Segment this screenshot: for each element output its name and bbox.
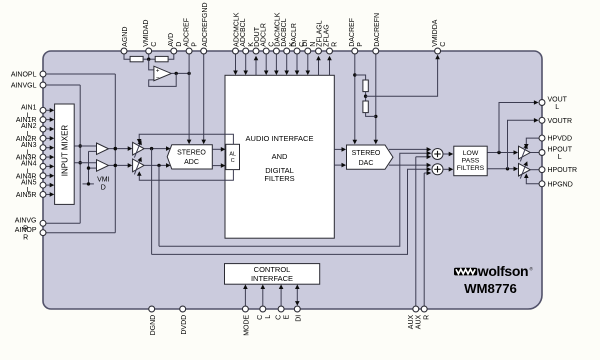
HP amp R — [519, 161, 531, 178]
pin HPVDD — [539, 135, 572, 142]
svg-text:HPGND: HPGND — [548, 181, 573, 188]
svg-text:C: C — [231, 158, 235, 164]
svg-text:E: E — [283, 314, 290, 319]
svg-text:AND: AND — [272, 152, 288, 161]
wire DI to control interface bidirectional — [295, 284, 300, 305]
pin AIN5L — [21, 179, 46, 194]
svg-text:L: L — [558, 154, 562, 161]
pin DOUT — [253, 26, 261, 54]
svg-text:DACLR: DACLR — [291, 23, 298, 47]
svg-text:AUX: AUX — [415, 314, 422, 329]
svg-text:C: C — [275, 315, 282, 320]
svg-text:VOUTR: VOUTR — [548, 118, 573, 125]
wire A2 to PGA2 — [109, 163, 133, 168]
block STEREO ADC — [167, 145, 212, 169]
svg-text:C: C — [151, 42, 158, 47]
wire CE to control interface — [279, 284, 284, 306]
svg-text:INPUT MIXER: INPUT MIXER — [61, 125, 70, 177]
pin DGND — [149, 306, 157, 335]
svg-text:ADCBCL: ADCBCL — [240, 18, 247, 47]
wire ADCREFGND to STEREO ADC — [201, 51, 206, 144]
svg-text:AIN1: AIN1 — [21, 105, 37, 112]
wire U1 output to ADCREFP node — [171, 72, 191, 75]
block AUDIO INTERFACE AND DIGITAL FILTERS — [225, 75, 334, 238]
wire AINOPL / AINOPR column — [43, 74, 117, 233]
pin AIN3L — [21, 142, 46, 157]
svg-text:AUDIO INTERFACE: AUDIO INTERFACE — [246, 134, 314, 143]
svg-text:WM8776: WM8776 — [464, 281, 517, 296]
pin AINOPL — [11, 71, 46, 78]
wire bypass L PGA1 to summer S2 — [152, 149, 432, 255]
svg-text:LOW: LOW — [463, 150, 479, 157]
pin AUXR — [415, 306, 430, 329]
wire HPVDD to HP amp L — [524, 138, 542, 149]
svg-text:C: C — [440, 42, 447, 47]
svg-text:D: D — [101, 184, 106, 191]
summer S1 — [432, 149, 443, 160]
wire ZFLAGL output — [316, 56, 321, 76]
wire HPGND to HP amp R — [524, 173, 542, 183]
svg-text:HPVDD: HPVDD — [548, 136, 573, 143]
pin AINOPR — [15, 227, 46, 242]
svg-text:STEREO: STEREO — [352, 150, 381, 157]
wire DACREFP tap to resistor R3 — [355, 75, 366, 80]
pin DI — [294, 306, 302, 322]
svg-text:VMIDDA: VMIDDA — [432, 19, 439, 47]
wire DAC R to summer S2 — [389, 163, 431, 168]
pin ADCBCLK — [240, 18, 255, 54]
pin VOUTL — [539, 97, 568, 111]
pin DACBCLK — [281, 18, 296, 54]
pin AVDD — [168, 33, 183, 54]
pin DIN — [302, 40, 317, 54]
pin CE — [275, 306, 290, 320]
op-amp U1 VMID buffer — [154, 66, 171, 81]
svg-text:DACREFN: DACREFN — [374, 13, 381, 47]
wire R4 to DACREFN — [366, 113, 376, 117]
wires clock/data input pins to audio interface — [233, 51, 310, 75]
pin VMIDDAC — [432, 19, 447, 54]
svg-text:wolfson: wolfson — [477, 263, 528, 279]
wire DACREFP down to STEREO DAC — [353, 51, 358, 144]
label VMID — [97, 176, 110, 191]
wire PGA2 to STEREO ADC — [144, 163, 171, 168]
wire PGA1 to STEREO ADC — [144, 146, 171, 151]
pin DVDD — [180, 306, 188, 335]
svg-text:AIN5R: AIN5R — [16, 192, 37, 199]
svg-text:AIN3: AIN3 — [21, 142, 37, 149]
resistor R4 — [363, 101, 368, 113]
wire LPF L to VOUTL and HP amp L — [488, 100, 539, 155]
svg-text:DACREF: DACREF — [349, 18, 356, 47]
pin CL — [257, 306, 272, 320]
amp A1 left channel — [97, 143, 109, 155]
pin ADCMCLK — [233, 12, 241, 54]
block LOW PASS FILTERS — [454, 146, 487, 176]
pin AIN2L — [21, 123, 46, 138]
pin AIN1R — [16, 117, 46, 124]
wire AUXR to summer S2 — [424, 171, 431, 306]
svg-text:P: P — [357, 42, 364, 47]
PGA2 variable gain amp R — [133, 157, 145, 175]
pin DACLRC — [291, 23, 306, 54]
wires audio interface to STEREO DAC — [334, 147, 346, 167]
svg-text:ADCREFGND: ADCREFGND — [202, 2, 209, 46]
svg-text:AVD: AVD — [168, 33, 175, 47]
svg-text:FILTERS: FILTERS — [457, 165, 485, 172]
block STEREO DAC — [347, 145, 394, 169]
pin ZFLAGR — [324, 24, 339, 54]
pin VMIDADC — [143, 20, 158, 54]
wire R2 to AVDD — [168, 51, 174, 59]
wire ADCREFP to STEREO ADC — [187, 51, 192, 144]
wire ZFLAGR output — [327, 56, 332, 76]
svg-text:ADCREF: ADCREF — [183, 18, 190, 47]
summer S2 — [432, 164, 443, 175]
svg-text:L: L — [555, 104, 559, 111]
block CONTROL INTERFACE — [225, 264, 320, 285]
svg-text:−: − — [156, 75, 160, 81]
pin ZFLAGL — [316, 20, 324, 54]
block ALC — [226, 144, 240, 169]
resistor R2 — [155, 56, 168, 61]
svg-text:FILTERS: FILTERS — [264, 174, 294, 183]
wire mixer R output to amp A2 — [74, 162, 96, 164]
svg-text:HPOUTR: HPOUTR — [548, 167, 578, 174]
pin AIN4R — [16, 173, 46, 180]
svg-text:R: R — [332, 42, 339, 47]
pin DACREFN — [373, 13, 381, 54]
wire ALC gain control to PGA1 — [137, 134, 234, 144]
pin AIN5R — [16, 192, 46, 199]
pin AINVGL — [11, 82, 46, 89]
wire DOUT output — [254, 56, 259, 76]
wire AGND to resistor R1 — [124, 51, 130, 59]
wire R1-R2 node VMIDADC — [143, 51, 155, 61]
svg-text:VOUT: VOUT — [548, 97, 568, 104]
svg-text:DACBCL: DACBCL — [281, 18, 288, 47]
svg-text:ZFLAG: ZFLAG — [324, 24, 331, 47]
wire S2 to low pass filters — [443, 167, 453, 172]
svg-text:C: C — [257, 315, 264, 320]
svg-text:STEREO: STEREO — [177, 150, 206, 157]
wire U1 feedback loop — [149, 73, 177, 86]
wire A1 to PGA1 — [109, 146, 133, 151]
svg-text:DVDD: DVDD — [181, 315, 188, 335]
HP amp L — [519, 144, 531, 161]
pin AIN2R — [16, 135, 46, 142]
svg-text:HPOUT: HPOUT — [548, 147, 573, 154]
wire MODE to control interface — [243, 284, 248, 306]
resistor R1 — [130, 56, 143, 61]
svg-text:VMIDAD: VMIDAD — [143, 20, 150, 47]
svg-text:R: R — [23, 235, 28, 242]
svg-text:AINVG: AINVG — [15, 218, 37, 225]
svg-text:DI: DI — [296, 315, 303, 322]
svg-text:+: + — [156, 68, 160, 74]
pin HPOUTL — [539, 147, 573, 161]
svg-text:ADC: ADC — [184, 159, 199, 166]
svg-text:R: R — [423, 315, 430, 320]
wire HP amp L to HPOUTL — [530, 152, 542, 154]
pin AINVGR — [15, 218, 46, 233]
svg-text:AIN2: AIN2 — [21, 123, 37, 130]
pin AIN1L — [21, 105, 46, 120]
pin HPGND — [539, 181, 573, 188]
pin AGND — [121, 27, 129, 54]
svg-text:ADCLR: ADCLR — [260, 23, 267, 47]
wire mixer L output to amp A1 — [74, 145, 96, 147]
wire R3-R4 midpoint to VMIDDAC — [364, 55, 440, 101]
pin DACMCLK — [273, 12, 281, 54]
svg-text:DGND: DGND — [150, 315, 157, 336]
block INPUT MIXER — [55, 104, 75, 204]
svg-text:AGND: AGND — [122, 27, 129, 47]
PGA1 variable gain amp L — [133, 140, 145, 158]
svg-text:AINOPL: AINOPL — [11, 72, 37, 79]
svg-text:VMI: VMI — [97, 176, 110, 183]
wire ALC gain control to PGA2 — [137, 170, 233, 181]
wire S1 to low pass filters — [443, 152, 453, 157]
wire CL to control interface — [261, 284, 266, 306]
pin AIN3R — [16, 154, 46, 161]
svg-text:DAC: DAC — [359, 160, 374, 167]
pin MODE — [242, 306, 250, 336]
pin AUX — [408, 306, 419, 329]
Wolfson logo — [454, 263, 534, 279]
svg-text:INTERFACE: INTERFACE — [251, 274, 293, 283]
label WM8776 — [464, 281, 517, 296]
svg-text:ZFLAGL: ZFLAGL — [317, 20, 324, 47]
wire HP amp R to HPOUTR — [530, 169, 542, 171]
resistor R3 — [363, 80, 368, 92]
wire AUXL to summer S1 — [416, 155, 431, 306]
pin ADCLRC — [260, 23, 275, 54]
pin AIN4L — [21, 161, 46, 176]
svg-text:CONTROL: CONTROL — [254, 265, 291, 274]
svg-text:AINOP: AINOP — [15, 227, 37, 234]
svg-text:DI: DI — [302, 40, 309, 47]
wire DACREFN down to STEREO DAC — [374, 51, 379, 144]
svg-text:AINVGL: AINVGL — [11, 83, 37, 90]
svg-text:D: D — [176, 42, 183, 47]
wires AIN1L-AIN5R into INPUT MIXER — [43, 108, 54, 197]
svg-text:AIN4: AIN4 — [21, 161, 37, 168]
svg-text:P: P — [191, 42, 198, 47]
svg-text:PASS: PASS — [462, 158, 480, 165]
wire VMID node to op-amp + input — [149, 59, 154, 70]
amp A2 right channel — [97, 160, 109, 172]
wire bypass R PGA2 to summer S1 — [159, 151, 431, 246]
pin HPOUTR — [539, 167, 577, 174]
svg-text:AL: AL — [229, 152, 236, 158]
svg-text:MODE: MODE — [244, 314, 251, 335]
wire LPF R to VOUTR and HP amp R — [488, 118, 539, 171]
wire DAC L to summer S1 — [389, 147, 431, 152]
pin VOUTR — [539, 117, 572, 124]
pin ADCREFP — [183, 18, 198, 54]
pin DACREFP — [349, 18, 364, 54]
wires STEREO ADC to ALC — [212, 147, 225, 168]
svg-text:AIN5: AIN5 — [21, 179, 37, 186]
chip body WM8776 — [43, 51, 542, 309]
svg-text:L: L — [265, 315, 272, 319]
pin ADCREFGND — [201, 2, 209, 53]
svg-text:AUX: AUX — [408, 314, 415, 329]
wire VMID node T — [83, 151, 97, 185]
wire AINVGL / AINVGR column — [43, 85, 82, 223]
